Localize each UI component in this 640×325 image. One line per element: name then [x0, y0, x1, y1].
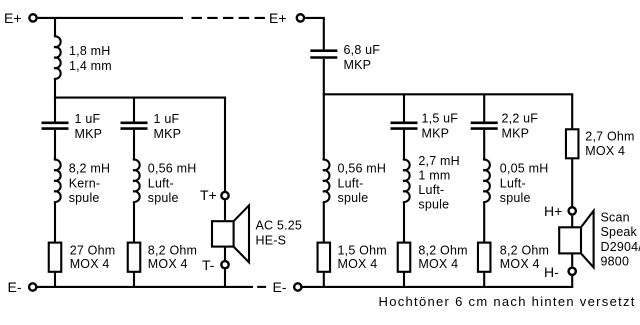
svg-text:E+: E+	[269, 10, 287, 26]
svg-text:T+: T+	[200, 187, 217, 203]
wire dashed top	[192, 17, 266, 19]
wire T- to bottom bus	[224, 269, 226, 287]
capacitor C2 1 uF	[121, 122, 148, 125]
wire bottom bus right	[303, 286, 574, 288]
wire branch R4 top	[571, 94, 573, 129]
terminal E+ left circle	[29, 14, 36, 21]
inductor L4 0,56 mH Luftspule	[323, 159, 330, 243]
wire branch A top	[54, 98, 56, 122]
terminal T- circle	[221, 261, 228, 268]
wire R2 to bottom bus	[133, 272, 135, 287]
terminal E- mid circle	[294, 283, 301, 290]
svg-text:E-: E-	[8, 279, 22, 295]
svg-text:1,8 mH1,4 mm: 1,8 mH1,4 mm	[69, 44, 112, 73]
speaker LS2 box	[559, 227, 581, 253]
inductor L6 0,05 mH Luftspule	[483, 159, 490, 243]
wire speaker to H-	[571, 253, 573, 266]
wire C4 to L5	[403, 130, 405, 161]
wire C1 to L2	[54, 130, 56, 161]
inductor L5 2,7 mH Luftspule	[403, 159, 410, 243]
capacitor C5 2,2 uF	[471, 122, 498, 125]
wire R5 to bottom bus	[483, 272, 485, 287]
wire R6 to H+	[571, 158, 573, 206]
wire H+ to speaker	[571, 216, 573, 228]
wire branch R3 top	[483, 94, 485, 121]
resistor R1 27 Ohm	[49, 243, 62, 272]
wire bus to T+	[224, 97, 226, 192]
capacitor C3 6,8 uF	[310, 49, 337, 52]
terminal H+ circle	[569, 207, 576, 214]
svg-text:1 uFMKP: 1 uFMKP	[154, 112, 182, 141]
wire bus left (node A)	[54, 97, 226, 99]
wire C2 to L3	[133, 130, 135, 161]
resistor R6 2,7 Ohm	[566, 129, 579, 158]
wire H- to bottom bus	[571, 276, 573, 287]
capacitor C1 1 uF	[42, 122, 69, 125]
wire R3 to bottom bus	[323, 272, 325, 287]
resistor R3 1,5 Ohm	[318, 243, 331, 272]
wire junction down to L1	[54, 18, 56, 21]
svg-text:H-: H-	[544, 264, 559, 280]
wire branch R2 top	[403, 94, 405, 121]
terminal H- circle	[569, 268, 576, 275]
svg-text:1 uFMKP: 1 uFMKP	[75, 112, 103, 141]
wire T+ to speaker	[224, 200, 226, 221]
capacitor C4 1,5 uF	[391, 122, 418, 125]
resistor R4 8,2 Ohm	[398, 243, 411, 272]
wire speaker to T-	[224, 247, 226, 260]
wire top left	[38, 17, 183, 19]
wire R4 to bottom bus	[403, 272, 405, 287]
wire C5 to L6	[483, 130, 485, 161]
svg-text:27 OhmMOX 4: 27 OhmMOX 4	[70, 244, 116, 271]
speaker LS2 horn	[581, 211, 594, 268]
wire C3 to bus2	[323, 59, 325, 95]
svg-text:T-: T-	[202, 257, 215, 273]
wire E+ mid to C3	[305, 18, 324, 50]
speaker LS1 horn	[234, 205, 249, 262]
wire bottom dash	[257, 286, 266, 288]
resistor R2 8,2 Ohm	[128, 243, 141, 272]
inductor L1 1,8 mH	[54, 20, 61, 98]
wire bottom bus left	[37, 286, 253, 288]
svg-text:E-: E-	[273, 279, 287, 295]
wire R1 to bottom bus	[54, 272, 56, 287]
inductor L2 8,2 mH Kernspule	[54, 159, 61, 243]
resistor R5 8,2 Ohm	[478, 243, 491, 272]
wire bus right (node B)	[323, 93, 574, 95]
terminal E+ mid circle	[297, 14, 304, 21]
wire branch R1 top	[323, 94, 325, 160]
terminal E- left circle	[29, 283, 36, 290]
terminal T+ circle	[221, 192, 228, 199]
svg-text:E+: E+	[4, 10, 22, 26]
speaker LS1 box	[212, 221, 234, 246]
inductor L3 0,56 mH Luftspule	[133, 159, 140, 243]
wire branch B top	[133, 98, 135, 122]
svg-text:Hochtöner 6 cm nach hinten ver: Hochtöner 6 cm nach hinten versetzt	[379, 294, 636, 309]
svg-text:H+: H+	[544, 203, 562, 219]
